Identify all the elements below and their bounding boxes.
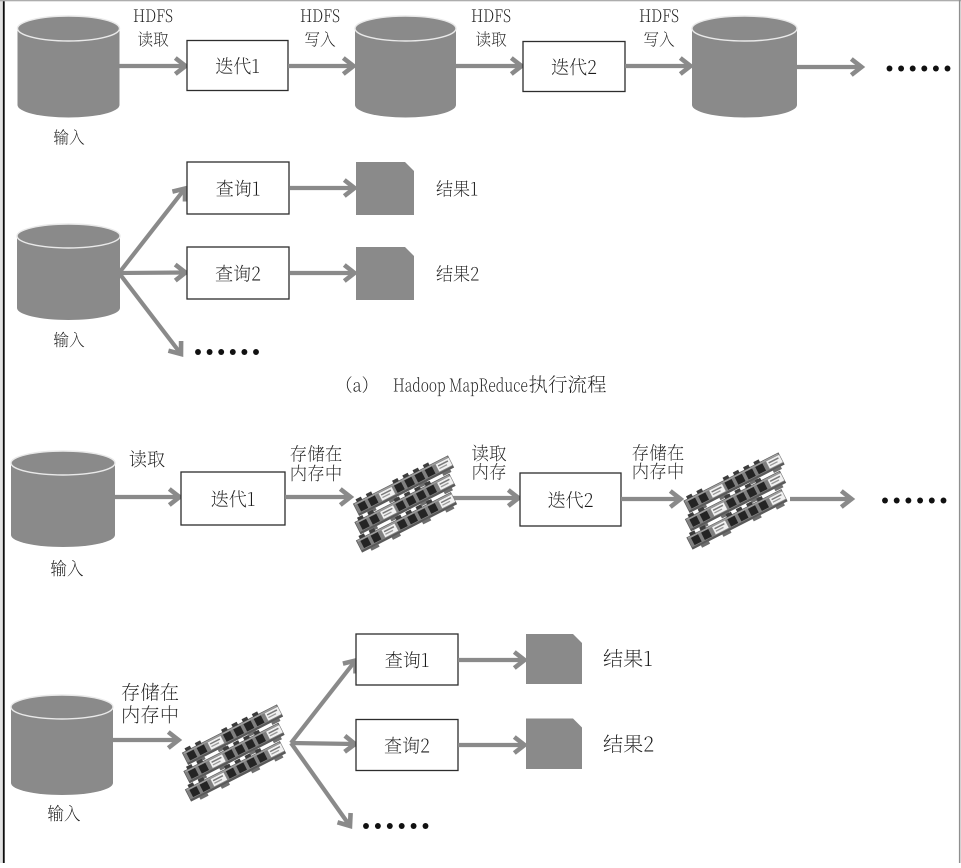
arrow 查询1 to 结果1 — [290, 180, 355, 196]
page right rule — [959, 0, 961, 863]
arrow 迭代2 to A3 — [625, 58, 691, 74]
ellipsis dots row1 — [887, 66, 951, 72]
page left black rule — [3, 0, 5, 863]
arrow B1 to 迭代1 — [115, 489, 180, 505]
label 存储在 内存中 (b2) — [632, 444, 683, 479]
box 查询2 (a) — [187, 247, 289, 299]
label 结果2 (b) — [604, 734, 653, 753]
cylinder input B1 — [11, 451, 115, 547]
label 输入 B3 — [48, 805, 80, 822]
arrow 查询2 to 结果2 — [290, 265, 355, 281]
box 查询1 (b) — [356, 634, 458, 685]
box 查询2 (b) — [356, 720, 458, 771]
arrow RAM1 to 迭代2 — [452, 490, 519, 506]
label 输入 A4 — [54, 332, 84, 348]
square 结果1 (b) — [526, 634, 582, 684]
label 存储在 内存中 (b1) — [290, 445, 341, 481]
arrow 迭代1 to RAM1 — [285, 489, 351, 505]
label 输入 A1 — [54, 129, 84, 145]
box 查询1 (a) — [187, 162, 289, 214]
cylinder input A1 — [18, 16, 120, 117]
memory RAM1 — [339, 453, 470, 555]
square 结果2 (b) — [526, 719, 582, 770]
arrow A3 onward — [797, 59, 862, 75]
memory RAM3 — [168, 702, 299, 804]
label 读取 内存 (b) — [472, 445, 506, 480]
ellipsis dots row4 — [363, 823, 428, 829]
box 迭代2 (b) — [520, 473, 621, 526]
arrow A2 to 迭代2 — [456, 58, 522, 74]
page top rule — [0, 0, 961, 1]
square 结果1 (a) — [356, 162, 414, 215]
label 输入 B1 — [51, 560, 83, 577]
fan arrow to more (b) — [291, 743, 351, 826]
label 结果2 (a) — [437, 265, 479, 282]
cylinder input A4 — [17, 224, 120, 320]
label 结果1 (a) — [437, 180, 478, 197]
arrow A1 to 迭代1 — [119, 58, 186, 74]
box 迭代1 (b) — [181, 472, 285, 525]
arrow 迭代2 to RAM2 — [621, 491, 681, 507]
fan arrow to more — [119, 273, 181, 354]
label HDFS 读取 (1) — [134, 9, 172, 47]
cylinder A3 — [692, 16, 797, 117]
cylinder A2 — [355, 16, 456, 117]
square 结果2 (a) — [356, 247, 414, 300]
fan arrow to 查询2 — [119, 265, 186, 281]
memory RAM2 — [670, 450, 801, 552]
fan arrow to 查询1 — [119, 189, 185, 274]
label HDFS 写入 (1) — [301, 9, 339, 47]
label 存储在 内存中 (b3) — [122, 683, 178, 724]
label 结果1 (b) — [604, 649, 652, 668]
caption (a) — [347, 375, 606, 396]
fan arrow to 查询2 (b) — [291, 736, 355, 752]
arrow 迭代1 to A2 — [288, 58, 354, 74]
arrow B3 to RAM3 — [113, 732, 179, 748]
arrow 查询1 to 结果1 (b) — [458, 652, 525, 668]
cylinder input B3 — [11, 695, 113, 795]
box 迭代2 (a) — [523, 42, 625, 92]
ellipsis dots row2 — [195, 349, 259, 355]
arrow 查询2 to 结果2 (b) — [458, 737, 525, 753]
label 读取 (b) — [130, 450, 165, 467]
label HDFS 读取 (2) — [472, 9, 510, 47]
fan arrow to 查询1 (b) — [291, 661, 356, 744]
arrow RAM2 onward — [790, 491, 852, 507]
box 迭代1 (a) — [187, 41, 288, 91]
page left scan edge — [0, 0, 2, 863]
label HDFS 写入 (2) — [640, 9, 678, 47]
ellipsis dots row3 — [882, 498, 946, 504]
